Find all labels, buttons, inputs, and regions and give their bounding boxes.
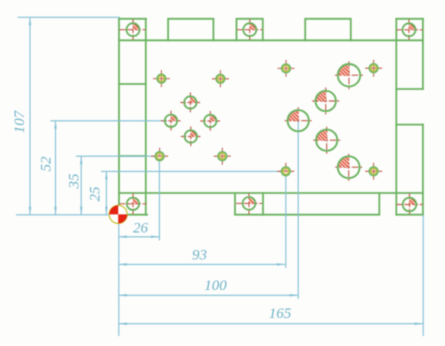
svg-text:25: 25 (88, 186, 104, 202)
svg-text:26: 26 (133, 221, 149, 237)
svg-text:52: 52 (39, 156, 55, 172)
svg-text:107: 107 (12, 109, 28, 133)
svg-text:165: 165 (269, 306, 292, 322)
svg-text:35: 35 (67, 173, 83, 190)
svg-text:93: 93 (192, 248, 207, 264)
svg-text:100: 100 (204, 278, 227, 294)
